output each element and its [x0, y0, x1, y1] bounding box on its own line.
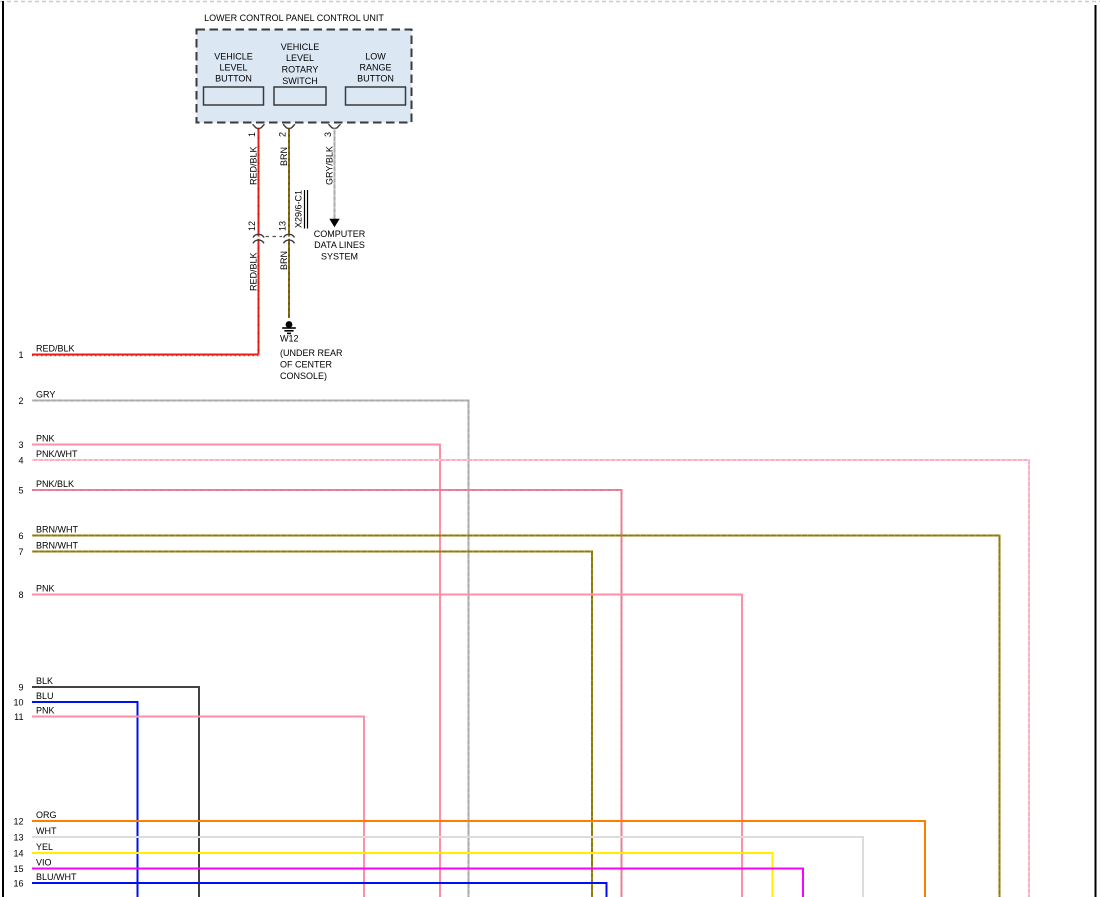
svg-text:RANGE: RANGE [359, 63, 391, 73]
wire 16 BLU/WHT [32, 883, 607, 897]
svg-text:10: 10 [13, 698, 23, 708]
ground W12 [286, 321, 293, 328]
wire 3 PNK [32, 445, 440, 897]
svg-text:8: 8 [18, 590, 23, 600]
svg-text:PNK/BLK: PNK/BLK [36, 479, 74, 489]
svg-text:1: 1 [18, 350, 23, 360]
svg-text:4: 4 [18, 456, 23, 466]
svg-text:3: 3 [18, 440, 23, 450]
svg-text:12: 12 [13, 817, 23, 827]
svg-text:GRY/BLK: GRY/BLK [325, 146, 335, 185]
svg-text:12: 12 [247, 221, 257, 231]
svg-text:PNK/WHT: PNK/WHT [36, 449, 78, 459]
svg-text:7: 7 [18, 547, 23, 557]
svg-text:DATA LINES: DATA LINES [314, 240, 365, 250]
svg-text:SWITCH: SWITCH [282, 76, 318, 86]
wire BRN pin 2 vertical [288, 129, 290, 319]
svg-text:2: 2 [278, 132, 288, 137]
top dashed page border [0, 1, 1100, 3]
svg-text:BUTTON: BUTTON [215, 74, 252, 84]
wire RED/BLK pin 1 vertical [258, 129, 260, 355]
low range button box [346, 87, 406, 105]
svg-text:X29/6-C1: X29/6-C1 [294, 190, 304, 228]
svg-text:2: 2 [18, 396, 23, 406]
wire 8 PNK [32, 595, 742, 897]
svg-text:BRN: BRN [279, 147, 289, 166]
break symbol wire 2 [287, 237, 290, 239]
svg-text:13: 13 [278, 221, 288, 231]
connector dashed link [266, 236, 283, 238]
svg-text:BRN: BRN [279, 251, 289, 270]
svg-text:CONSOLE): CONSOLE) [280, 371, 327, 381]
svg-text:OF CENTER: OF CENTER [280, 360, 333, 370]
svg-text:WHT: WHT [36, 826, 57, 836]
control unit box [197, 30, 412, 123]
svg-text:9: 9 [18, 683, 23, 693]
svg-text:BLK: BLK [36, 676, 53, 686]
svg-text:3: 3 [323, 132, 333, 137]
svg-text:BLU: BLU [36, 691, 54, 701]
svg-text:1: 1 [247, 132, 257, 137]
pin 1 terminal bump [253, 124, 265, 128]
svg-text:11: 11 [14, 712, 23, 722]
svg-text:LOWER CONTROL PANEL CONTROL UN: LOWER CONTROL PANEL CONTROL UNIT [204, 13, 384, 23]
svg-text:VIO: VIO [36, 858, 52, 868]
svg-text:LOW: LOW [365, 52, 386, 62]
svg-text:PNK: PNK [36, 584, 55, 594]
break symbol wire 1 [257, 237, 260, 239]
svg-text:RED/BLK: RED/BLK [249, 252, 259, 291]
arrow computer data lines [329, 219, 339, 227]
svg-text:15: 15 [13, 864, 23, 874]
wire GRY/BLK pin 3 vertical [334, 129, 336, 220]
left page border [2, 1, 4, 897]
svg-text:VEHICLE: VEHICLE [214, 52, 253, 62]
wire 1 RED/BLK [32, 354, 259, 356]
svg-text:ORG: ORG [36, 810, 57, 820]
wire 6 BRN/WHT [32, 536, 1000, 897]
svg-text:PNK: PNK [36, 706, 55, 716]
svg-text:RED/BLK: RED/BLK [36, 344, 75, 354]
svg-text:GRY: GRY [36, 390, 55, 400]
svg-text:ROTARY: ROTARY [282, 65, 319, 75]
svg-text:(UNDER REAR: (UNDER REAR [280, 348, 343, 358]
wire 11 PNK [32, 717, 364, 897]
svg-text:SYSTEM: SYSTEM [321, 252, 358, 262]
svg-text:BUTTON: BUTTON [357, 74, 394, 84]
svg-text:14: 14 [13, 849, 23, 859]
connector label underline [304, 190, 306, 229]
vehicle level button box [204, 87, 264, 105]
wire 7 BRN/WHT [32, 552, 592, 897]
svg-text:PNK: PNK [36, 434, 55, 444]
svg-text:RED/BLK: RED/BLK [249, 146, 259, 185]
svg-text:YEL: YEL [36, 842, 53, 852]
svg-text:LEVEL: LEVEL [286, 53, 314, 63]
vehicle level rotary switch box [274, 87, 326, 105]
wire 2 GRY [32, 401, 469, 897]
wire 10 BLU [32, 702, 138, 897]
svg-text:5: 5 [18, 486, 23, 496]
svg-text:BRN/WHT: BRN/WHT [36, 525, 78, 535]
wire 14 YEL [32, 853, 773, 897]
svg-text:BRN/WHT: BRN/WHT [36, 541, 78, 551]
wire 15 VIO [32, 869, 803, 897]
pin 3 terminal bump [329, 124, 341, 128]
wire 13 WHT [32, 837, 863, 897]
svg-text:6: 6 [18, 531, 23, 541]
right page border [1095, 5, 1097, 897]
wire 4 PNK/WHT [32, 460, 1029, 897]
wire 9 BLK [32, 687, 199, 897]
svg-text:W12: W12 [280, 334, 299, 344]
svg-text:VEHICLE: VEHICLE [281, 42, 320, 52]
pin 2 terminal bump [283, 124, 295, 128]
wire 12 ORG [32, 821, 925, 897]
svg-text:LEVEL: LEVEL [219, 63, 247, 73]
svg-text:13: 13 [13, 833, 23, 843]
svg-text:BLU/WHT: BLU/WHT [36, 872, 77, 882]
wire 5 PNK/BLK [32, 490, 622, 897]
svg-text:16: 16 [13, 879, 23, 889]
svg-text:COMPUTER: COMPUTER [314, 229, 366, 239]
